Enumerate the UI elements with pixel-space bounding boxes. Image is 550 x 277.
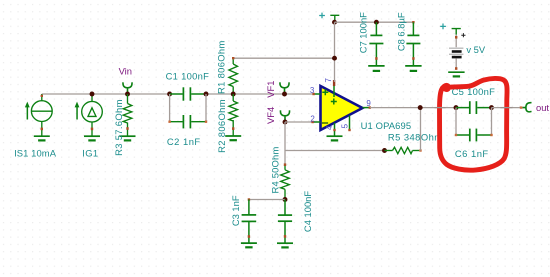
svg-text:C8 6.8µF: C8 6.8µF [396,12,407,51]
voltage pin VF1 probe [280,82,289,94]
power tap +V rail [330,15,339,22]
op-amp power plus marker [331,99,337,105]
ground C4 [277,243,293,247]
wire C6 left drop [455,108,457,135]
battery plus marker [461,33,465,37]
pin mark R1 top [232,57,234,59]
ground R2 [225,136,241,140]
capacitor C7 [369,22,383,66]
pin mark C3 [248,235,250,238]
wire R4 node to C3 [249,199,285,201]
pin mark C3 top corner [248,198,250,200]
wire R4 top segment [284,151,286,165]
wire supply rail horizontal [335,21,414,23]
pin mark C4 [284,235,286,238]
svg-text:C4 100nF: C4 100nF [302,191,313,232]
svg-text:U1 OPA695: U1 OPA695 [361,120,412,131]
pin mark C2 right corner [205,121,207,123]
junction C7 top [374,20,379,25]
wire output horizontal [370,107,456,109]
junction supply / R1 wire [332,56,337,61]
pin stub op-amp output pin 9 [363,107,370,109]
junction IG1 top [90,92,95,97]
svg-text:IG1: IG1 [82,148,98,159]
voltage pin VF4 probe [280,110,289,122]
wire C2 right drop [205,94,207,122]
pin mark out [520,106,523,108]
wire VF4 down [284,122,286,151]
ground IG1 [84,136,100,140]
junction R1/R2 node [231,92,236,97]
pin mark pin 4 [333,129,335,131]
pin line op-amp pin 5 [349,115,351,130]
resistor R3 [123,94,132,136]
wire feedback vertical [420,108,422,151]
op-amp plus input marker [322,89,328,95]
ground C3 [241,243,257,247]
op-amp minus input marker [322,122,328,124]
pin mark IS1 bottom [41,128,43,131]
pin mark pin 7 [333,80,335,86]
svg-text:4: 4 [325,125,334,130]
junction R5 left [382,148,387,153]
junction C5 left node [454,105,459,110]
plus sign battery tap [440,24,446,30]
wire to out terminal [492,107,522,109]
wire battery top [455,35,457,48]
capacitor C1 [170,87,206,100]
pin mark C7 [375,57,377,60]
ground IS1 [34,136,50,140]
ground C8 [405,66,421,71]
junction R4 bottom node [283,197,288,202]
svg-text:R4 50Ohm: R4 50Ohm [269,147,280,194]
svg-text:C7 100nF: C7 100nF [358,12,369,53]
capacitor C3 [242,200,257,244]
svg-text:9: 9 [366,99,371,108]
junction top rail tap [332,20,337,25]
out terminal [523,103,532,112]
pin mark C2 left corner [168,121,170,123]
pin mark C6 left corner [455,134,457,136]
red annotation circle around C5 C6 [440,78,508,170]
svg-text:VF4: VF4 [265,107,276,124]
capacitor C2 [170,115,206,128]
resistor R5 [385,147,420,153]
pin mark C8 top corner [412,21,414,23]
junction C5 right node [489,105,494,110]
junction output/feedback [418,105,423,110]
wire R1 top to supply rail [233,57,334,59]
wire crossing red annotation left [435,107,446,109]
ground R3 [120,136,136,140]
junction C1 left node [167,92,172,97]
pin mark pin 2 [311,121,313,123]
junction VF4 node [283,120,288,125]
wire C2 left drop [169,94,171,122]
wire VF4 to op-amp pin 2 [285,121,313,123]
pin mark C8 [412,57,414,60]
capacitor C8 [406,22,420,66]
wire feedback horizontal [285,150,385,152]
pin mark output [369,106,371,108]
svg-text:R3 57.6Ohm: R3 57.6Ohm [113,99,124,156]
resistor R4 [281,166,290,200]
svg-text:2: 2 [310,114,315,123]
current source IS1 [31,94,52,136]
wire main bus right (C1 right node to op-amp pin 3) [206,93,313,95]
battery V 5V [449,48,463,57]
wire main bus left (IS1 to C1 left node) [42,93,170,95]
svg-text:IS1 10mA: IS1 10mA [14,148,57,159]
svg-text:C2 1nF: C2 1nF [167,136,201,147]
capacitor C4 [278,200,292,244]
capacitor C5 [456,101,492,114]
pin mark C6 right corner [490,134,492,136]
pin mark pin 5 [348,129,350,131]
svg-text:VF1: VF1 [265,80,276,97]
svg-text:R5 348Ohm: R5 348Ohm [388,131,443,142]
plus sign top rail [319,13,325,19]
IG1 direction arrow [75,102,80,120]
pin mark battery top [455,36,457,39]
wire supply vertical to pin 7 [334,22,336,82]
pin mark R5 right corner [419,149,421,151]
pin stub op-amp pin 3 [313,93,320,95]
svg-text:7: 7 [324,78,333,83]
svg-text:v 5V: v 5V [466,44,486,55]
resistor R2 [229,94,238,136]
current source IG1 [82,94,103,136]
wire battery bottom [455,58,457,69]
pin mark IS1 top [41,95,43,97]
wire crossing red annotation right [501,107,513,109]
pin mark R4 top [284,163,286,166]
svg-text:3: 3 [310,86,315,95]
junction Vin / R3 node [125,92,130,97]
svg-text:C6 1nF: C6 1nF [455,148,489,159]
ground C7 [368,66,384,71]
pin line op-amp pin 7 [333,82,335,97]
wire C6 right drop [491,108,493,135]
svg-text:R2 806Ohm: R2 806Ohm [216,99,227,153]
svg-text:Vin: Vin [119,66,132,77]
pin mark pin 3 [312,93,314,95]
pin mark IG1 bottom [91,128,93,131]
pin line op-amp pin 4 [334,123,336,136]
op-amp U1 triangle [321,86,363,130]
voltage pin Vin probe [123,82,132,94]
IS1 direction arrow [25,102,30,120]
resistor R1 [229,60,238,95]
ground op-amp pin 4 [327,136,343,140]
power tap battery [452,29,461,35]
svg-text:C1 100nF: C1 100nF [166,70,210,81]
junction C1 right node [204,92,209,97]
svg-text:R1 806Ohm: R1 806Ohm [216,40,227,94]
pin stub op-amp pin 2 [313,121,320,123]
pin mark battery bottom [455,67,457,70]
svg-text:out: out [536,102,549,113]
ground battery [448,72,464,76]
capacitor C6 [456,129,492,142]
svg-text:5: 5 [341,123,350,128]
junction VF1 node [282,92,287,97]
pin mark R3 bottom [126,127,128,130]
svg-text:C3 1nF: C3 1nF [230,195,241,226]
pin mark R2 bottom [232,127,234,130]
